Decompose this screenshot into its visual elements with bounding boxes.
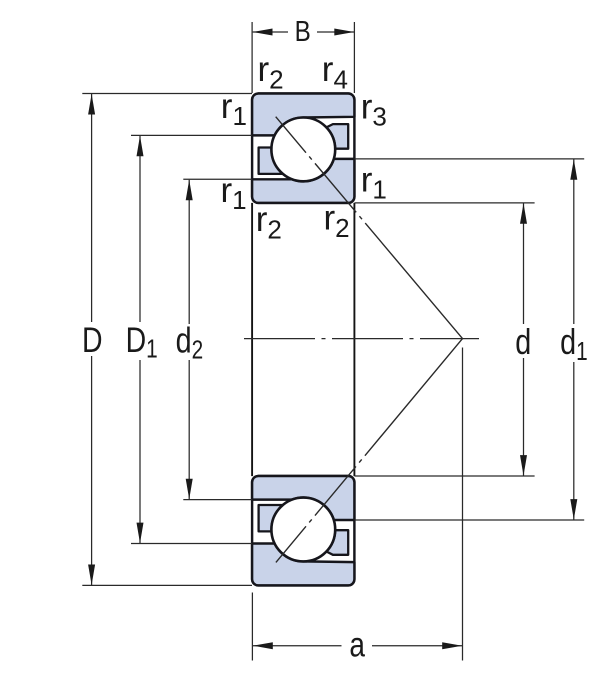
contact angle line top [276,117,463,339]
d2 extension bottom [183,499,252,501]
D extension top [82,93,252,95]
a extension line left [251,593,253,661]
svg-text:B: B [295,15,311,47]
contact angle line bottom [276,339,463,563]
D extension bottom [82,584,252,586]
B dimension line [253,31,288,33]
bottom bearing section (mirrored) [252,476,354,585]
d dimension line [523,203,525,324]
D1 extension top [131,134,252,136]
outer cylindrical surface right wire [353,203,355,476]
d2 extension top [183,178,252,180]
D1 extension bottom [131,543,252,545]
svg-text:d: d [515,321,531,362]
d1 extension bottom [355,519,585,521]
d extension top [355,202,535,204]
B extension line left [251,22,253,93]
d extension bottom [355,475,535,477]
shaft centerline [244,338,479,340]
svg-text:D: D [82,320,103,360]
d1 dimension line [573,159,575,324]
d1 extension top [355,158,585,160]
B extension line right [353,22,355,93]
outer cylindrical surface left wire [251,203,253,476]
d2 dimension line [188,180,190,324]
top bearing section [252,94,354,203]
a dimension line [253,645,342,647]
D1 dimension line [139,136,141,322]
svg-text:a: a [349,624,365,664]
D dimension line [91,94,93,322]
a extension line right (apex vertical) [462,348,464,661]
